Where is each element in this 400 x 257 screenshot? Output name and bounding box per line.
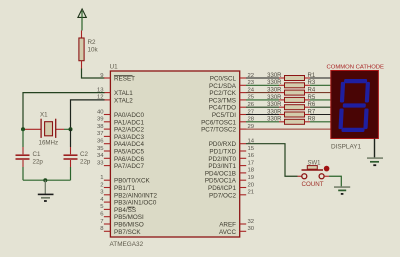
svg-text:32: 32: [248, 219, 255, 225]
svg-text:16MHz: 16MHz: [39, 140, 59, 147]
wire: junction to C2: [70, 129, 72, 147]
svg-text:PD7/OC2: PD7/OC2: [209, 192, 236, 199]
svg-text:20: 20: [248, 182, 255, 188]
wire: display cathode to ground: [374, 139, 376, 158]
wire: resistor R6 to display: [310, 106, 331, 108]
resistor R3 330R: [267, 80, 316, 88]
power symbol (VCC arrow): [78, 9, 86, 31]
pin 8 PB7/SCK (left): [100, 226, 141, 236]
svg-text:PA3/ADC3: PA3/ADC3: [114, 134, 144, 141]
svg-text:SW1: SW1: [308, 161, 322, 167]
svg-text:16: 16: [248, 153, 255, 159]
wire: C1 to ground rail: [22, 160, 24, 167]
resistor R6 330R: [267, 102, 316, 110]
crystal X1 16MHz: [23, 112, 71, 147]
wire: junction to C1: [22, 129, 24, 147]
svg-text:17: 17: [248, 160, 255, 166]
RESET overbar: [114, 75, 133, 77]
pin 37 PA3/ADC3 (left): [97, 131, 145, 141]
wire: resistor R3 to display: [310, 84, 331, 86]
svg-text:PD2/INT0: PD2/INT0: [208, 156, 236, 163]
wire: pin 29 PC7 to display dp: [246, 128, 331, 130]
svg-text:330R: 330R: [267, 117, 282, 123]
node: crystal-left junction: [21, 127, 25, 131]
svg-text:PD6/ICP1: PD6/ICP1: [208, 185, 236, 192]
pin 3 PB2/AIN0/INT2 (left): [100, 190, 157, 200]
pin 30 AVCC (right): [219, 226, 255, 236]
svg-text:PA1/ADC1: PA1/ADC1: [114, 119, 144, 126]
push button SW1: [302, 161, 330, 188]
pin 14 PD0/RXD (right): [209, 139, 255, 149]
svg-text:330R: 330R: [267, 80, 282, 86]
pin 38 PA2/ADC2 (left): [97, 124, 145, 134]
resistor R8 330R: [267, 117, 316, 125]
wire: resistor R4 to display: [310, 92, 331, 94]
svg-text:40: 40: [97, 109, 104, 115]
svg-text:PD0/RXD: PD0/RXD: [209, 141, 237, 148]
svg-text:PA0/ADC0: PA0/ADC0: [114, 112, 144, 119]
node: ground rail junction: [43, 178, 47, 182]
svg-text:PC2/TCK: PC2/TCK: [209, 90, 236, 97]
pin 34 PA6/ADC6 (left): [97, 153, 145, 163]
capacitor C2 22p: [64, 151, 91, 166]
pin 12 XTAL2 (left): [97, 95, 133, 105]
svg-text:PD3/INT1: PD3/INT1: [208, 163, 236, 170]
wire: PC4 pin to resistor R6: [246, 106, 279, 108]
wire: R2 to RESET pin 9: [82, 61, 105, 78]
svg-text:35: 35: [97, 146, 104, 152]
capacitor C1 22p: [16, 151, 44, 166]
pin 33 PA7/ADC7 (left): [97, 160, 145, 170]
svg-text:C1: C1: [33, 151, 41, 158]
pin 32 AREF (right): [219, 219, 254, 229]
pin 6 PB5/MOSI (left): [100, 212, 144, 222]
svg-text:AVCC: AVCC: [219, 229, 236, 236]
svg-text:330R: 330R: [267, 73, 282, 79]
resistor R2: [79, 38, 99, 61]
resistor R5 330R: [267, 95, 316, 103]
svg-text:PB3/AIN1/OC0: PB3/AIN1/OC0: [114, 200, 157, 207]
svg-text:PD5/OC1A: PD5/OC1A: [205, 178, 237, 185]
7-segment display DISPLAY1: [331, 71, 379, 139]
pin 26 PC4/TDO (right): [209, 102, 255, 112]
wire: PC5 pin to resistor R7: [246, 114, 279, 116]
svg-text:PB0/T0/XCK: PB0/T0/XCK: [114, 178, 150, 185]
svg-text:36: 36: [97, 139, 104, 145]
svg-text:9: 9: [100, 73, 103, 79]
pin 1 PB0/T0/XCK (left): [100, 175, 150, 185]
svg-text:330R: 330R: [267, 109, 282, 115]
svg-text:39: 39: [97, 117, 104, 123]
pin 9 RESET (left): [100, 73, 135, 83]
pin 35 PA5/ADC5 (left): [97, 146, 145, 156]
svg-text:PD4/OC1B: PD4/OC1B: [205, 170, 236, 177]
wire: resistor R5 to display: [310, 99, 331, 101]
svg-text:PB5/MOSI: PB5/MOSI: [114, 214, 144, 221]
ground (crystal): [38, 180, 54, 201]
wire: PC3 pin to resistor R5: [246, 99, 279, 101]
resistor R7 330R: [267, 109, 316, 117]
svg-text:21: 21: [248, 190, 255, 196]
svg-text:PC4/TDO: PC4/TDO: [209, 105, 236, 112]
svg-text:22p: 22p: [80, 158, 91, 165]
svg-text:1: 1: [100, 175, 103, 181]
svg-text:ATMEGA32: ATMEGA32: [110, 241, 144, 248]
svg-text:DISPLAY1: DISPLAY1: [331, 144, 362, 151]
wire: XTAL2 pin 12 to crystal: [71, 100, 105, 129]
svg-text:15: 15: [248, 146, 255, 152]
svg-text:37: 37: [97, 131, 104, 137]
svg-text:PD1/TXD: PD1/TXD: [209, 149, 236, 156]
svg-text:PB2/AIN0/INT2: PB2/AIN0/INT2: [114, 192, 158, 199]
svg-text:38: 38: [97, 124, 104, 130]
wire: PC6 pin to resistor R8: [246, 121, 279, 123]
pin 7 PB6/MISO (left): [100, 219, 144, 229]
svg-text:30: 30: [248, 226, 255, 232]
svg-text:22p: 22p: [33, 158, 44, 165]
svg-text:PA4/ADC4: PA4/ADC4: [114, 141, 144, 148]
wire: XTAL1 pin 13 to crystal: [23, 93, 105, 130]
node: crystal-right junction: [69, 127, 73, 131]
pin 21 PD7/OC2 (right): [209, 190, 254, 200]
wire: resistor R8 to display: [310, 121, 331, 123]
svg-text:330R: 330R: [267, 88, 282, 94]
svg-text:PB4/SS: PB4/SS: [114, 207, 136, 214]
svg-text:COUNT: COUNT: [302, 181, 324, 188]
pin 15 PD1/TXD (right): [209, 146, 254, 156]
wire: resistor R1 to display: [310, 77, 331, 79]
svg-text:19: 19: [248, 175, 255, 181]
svg-text:7: 7: [100, 219, 103, 225]
svg-text:COMMON CATHODE: COMMON CATHODE: [327, 65, 385, 71]
svg-text:PB7/SCK: PB7/SCK: [114, 229, 141, 236]
svg-text:PA6/ADC6: PA6/ADC6: [114, 156, 144, 163]
svg-text:PA7/ADC7: PA7/ADC7: [114, 163, 144, 170]
svg-text:PC7/TOSC2: PC7/TOSC2: [201, 127, 236, 134]
svg-text:XTAL2: XTAL2: [114, 97, 133, 104]
pin 23 PC1/SDA (right): [209, 80, 255, 90]
wire: PC0 pin to resistor R1: [246, 77, 279, 79]
svg-text:PC3/TMS: PC3/TMS: [209, 97, 236, 104]
SS overbar: [127, 206, 134, 208]
wire: ground rail C1-C2: [23, 179, 71, 181]
pin 13 XTAL1 (left): [97, 87, 133, 97]
svg-text:2: 2: [100, 182, 103, 188]
svg-text:PA5/ADC5: PA5/ADC5: [114, 149, 144, 156]
pin 24 PC2/TCK (right): [209, 87, 254, 97]
pin 2 PB1/T1 (left): [100, 182, 135, 192]
pin 40 PA0/ADC0 (left): [97, 109, 145, 119]
svg-text:PA2/ADC2: PA2/ADC2: [114, 127, 144, 134]
IC U1 ATMEGA32 body: [110, 63, 240, 248]
pin 22 PC0/SCL (right): [210, 73, 254, 83]
svg-text:C2: C2: [80, 151, 88, 158]
wire: arrow to R2: [81, 31, 83, 39]
svg-text:PC0/SCL: PC0/SCL: [210, 76, 237, 83]
pin 4 PB3/AIN1/OC0 (left): [100, 197, 157, 207]
svg-text:AREF: AREF: [219, 222, 236, 229]
wire: PD0 pin 14 to switch SW1: [246, 144, 298, 177]
pin 17 PD3/INT1 (right): [208, 160, 254, 170]
pin 25 PC3/TMS (right): [209, 95, 255, 105]
pin 19 PD5/OC1A (right): [205, 175, 254, 185]
pin 36 PA4/ADC4 (left): [97, 139, 145, 149]
pin 18 PD4/OC1B (right): [205, 168, 255, 178]
svg-text:XTAL1: XTAL1: [114, 90, 133, 97]
pin 20 PD6/ICP1 (right): [208, 182, 255, 192]
svg-text:PC5/TDI: PC5/TDI: [212, 112, 236, 119]
pin 29 PC7/TOSC2 (right): [201, 124, 254, 134]
svg-text:330R: 330R: [267, 102, 282, 108]
svg-text:RESET: RESET: [114, 76, 135, 83]
wire: switch SW1 to ground: [324, 176, 341, 186]
resistor R1 330R: [267, 73, 316, 81]
pin 16 PD2/INT0 (right): [208, 153, 254, 163]
svg-text:330R: 330R: [267, 95, 282, 101]
svg-text:10k: 10k: [88, 46, 99, 53]
svg-text:PB6/MISO: PB6/MISO: [114, 222, 144, 229]
svg-text:U1: U1: [110, 63, 119, 70]
wire: PC2 pin to resistor R4: [246, 92, 279, 94]
svg-text:R2: R2: [88, 39, 97, 46]
svg-text:PC1/SDA: PC1/SDA: [209, 83, 237, 90]
svg-text:X1: X1: [40, 112, 48, 119]
svg-text:PB1/T1: PB1/T1: [114, 185, 135, 192]
svg-text:PC6/TOSC1: PC6/TOSC1: [201, 119, 236, 126]
wire: resistor R7 to display: [310, 114, 331, 116]
wire: PC1 pin to resistor R3: [246, 84, 279, 86]
pin 27 PC5/TDI (right): [212, 109, 254, 119]
pin 39 PA1/ADC1 (left): [97, 117, 145, 127]
pin 5 PB4/SS (left): [100, 204, 136, 214]
svg-text:33: 33: [97, 160, 104, 166]
ground (switch): [334, 187, 350, 194]
resistor R4 330R: [267, 88, 316, 96]
pin 28 PC6/TOSC1 (right): [201, 117, 255, 127]
svg-text:18: 18: [248, 168, 255, 174]
wire: C2 to ground rail: [70, 160, 72, 167]
svg-text:34: 34: [97, 153, 104, 159]
ground (display): [367, 158, 383, 165]
